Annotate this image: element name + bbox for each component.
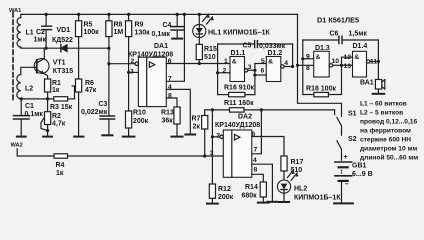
op-amp DA2 xyxy=(220,130,252,177)
capacitor C5 xyxy=(218,41,293,48)
svg-text:1мк: 1мк xyxy=(34,37,47,44)
ground GB1 xyxy=(334,202,353,204)
svg-text:R4: R4 xyxy=(56,162,65,169)
resistor R9 xyxy=(126,14,132,111)
svg-text:0,1мк: 0,1мк xyxy=(152,31,171,38)
svg-text:C4: C4 xyxy=(163,22,172,29)
svg-text:0,033мк: 0,033мк xyxy=(259,43,286,50)
svg-text:WA2: WA2 xyxy=(11,142,23,148)
svg-text:4: 4 xyxy=(284,60,288,67)
ground R14 xyxy=(258,202,269,204)
svg-text:R17: R17 xyxy=(291,159,304,166)
ground BA1 xyxy=(373,93,385,95)
svg-text:0,1мк: 0,1мк xyxy=(25,111,44,118)
wire top supply rail xyxy=(21,14,298,17)
battery GB1 xyxy=(335,162,352,202)
svg-text:130к: 130к xyxy=(135,30,151,37)
wire D1.3 pin8 input xyxy=(298,64,314,66)
wire node P down to S1 throw xyxy=(334,110,336,115)
resistor R17 xyxy=(281,156,287,180)
svg-text:VT1: VT1 xyxy=(53,60,66,67)
svg-text:&: & xyxy=(232,59,237,66)
svg-text:КТ315: КТ315 xyxy=(53,68,74,75)
svg-text:DA2: DA2 xyxy=(238,113,252,120)
svg-text:100к: 100к xyxy=(84,29,100,36)
resistor R5 xyxy=(76,14,82,79)
wire DA2 pin8 to R14 xyxy=(252,174,263,182)
svg-text:R2: R2 xyxy=(52,113,61,120)
inductor L1 xyxy=(17,18,21,48)
svg-text:3: 3 xyxy=(130,68,134,75)
svg-text:6: 6 xyxy=(168,58,172,65)
svg-text:3: 3 xyxy=(210,150,214,157)
svg-text:C5: C5 xyxy=(243,43,252,50)
resistor R13 xyxy=(174,107,180,136)
svg-text:КР140УД1208: КР140УД1208 xyxy=(215,122,260,129)
transistor VT1 xyxy=(34,59,49,74)
LED HL2 xyxy=(277,170,298,201)
svg-text:D1 К561ЛЕ5: D1 К561ЛЕ5 xyxy=(317,16,359,25)
svg-text:1М: 1М xyxy=(114,29,124,36)
svg-text:D1.4: D1.4 xyxy=(353,43,368,50)
ground R6 xyxy=(74,136,83,138)
svg-text:DA1: DA1 xyxy=(154,43,168,50)
svg-text:8: 8 xyxy=(168,92,172,99)
wire DA2 pin7 up to node P xyxy=(252,110,262,154)
svg-text:13: 13 xyxy=(344,63,352,70)
svg-text:R5: R5 xyxy=(84,22,93,29)
wire D1.4 pin12 input xyxy=(342,56,353,58)
wire VT1 collector to tank xyxy=(43,48,45,58)
resistor R6 (trimmer) xyxy=(76,79,82,136)
wire C6 right to D1.4 output node xyxy=(377,40,379,80)
resistor R1 xyxy=(45,79,51,99)
wire R6 wiper xyxy=(74,86,76,99)
wire D1.2 pin5 input xyxy=(255,63,266,65)
wire D1.3 pin9 input xyxy=(303,58,314,60)
ground C3 xyxy=(102,134,112,136)
svg-text:6: 6 xyxy=(252,131,256,138)
capacitor C2 xyxy=(42,14,52,48)
capacitor C6 xyxy=(303,36,379,43)
svg-text:8: 8 xyxy=(306,65,310,72)
svg-text:S2: S2 xyxy=(348,136,357,143)
logic gate D1.2 xyxy=(266,57,292,82)
svg-text:R11 160к: R11 160к xyxy=(224,100,254,107)
svg-text:6: 6 xyxy=(261,68,265,75)
resistor R11 xyxy=(230,108,335,112)
switch S2 xyxy=(337,132,342,160)
svg-text:C6: C6 xyxy=(330,30,339,37)
svg-text:R15: R15 xyxy=(204,46,217,53)
ground C4 xyxy=(172,38,182,40)
wire R12 column xyxy=(211,110,213,184)
wire DA1 pin6 output to D1.1 pin1 xyxy=(166,63,230,65)
inductor L2 xyxy=(17,75,21,99)
svg-text:ВА1: ВА1 xyxy=(360,80,374,87)
logic gate D1.1 xyxy=(230,57,255,82)
svg-text:S1: S1 xyxy=(348,111,357,118)
svg-text:4: 4 xyxy=(168,84,172,91)
svg-text:200к: 200к xyxy=(218,194,234,201)
svg-text:11: 11 xyxy=(370,59,377,66)
svg-text:КИПМО1Б–1К: КИПМО1Б–1К xyxy=(294,195,341,202)
svg-text:2: 2 xyxy=(216,133,220,140)
resistor R15 xyxy=(196,37,202,63)
op-amp DA1 xyxy=(135,57,166,106)
ground R10 xyxy=(123,136,135,138)
wire DA1 pin2 input xyxy=(109,63,135,65)
svg-text:R13: R13 xyxy=(161,110,174,117)
svg-text:R3 15к: R3 15к xyxy=(50,104,73,111)
svg-text:1к: 1к xyxy=(56,170,64,177)
svg-text:HL2: HL2 xyxy=(294,186,307,193)
svg-text:R1: R1 xyxy=(52,80,61,87)
wire DA2 pin6 output to R17 xyxy=(252,137,284,157)
svg-text:C2: C2 xyxy=(36,29,45,36)
svg-text:длиной 50...60 мм: длиной 50...60 мм xyxy=(360,154,418,162)
svg-text:7: 7 xyxy=(168,76,172,83)
wire D1.1 pin2 input xyxy=(218,72,230,74)
svg-text:R8: R8 xyxy=(114,22,123,29)
svg-text:2к: 2к xyxy=(193,123,201,130)
logic gate D1.4 xyxy=(353,51,379,77)
svg-text:5: 5 xyxy=(261,58,265,65)
ground HL2 xyxy=(279,201,289,203)
svg-text:L2: L2 xyxy=(25,86,33,93)
resistor R7 xyxy=(202,110,208,156)
ground R13 xyxy=(171,136,182,138)
resistor R8 xyxy=(106,14,112,115)
svg-text:L1: L1 xyxy=(26,30,34,37)
wire L1 bottom to oscillator node xyxy=(21,47,109,48)
svg-text:4: 4 xyxy=(253,157,257,164)
wire DA2 pin4 to ground xyxy=(252,164,273,201)
resistor R3 xyxy=(54,97,75,101)
ground R12 xyxy=(207,203,218,205)
svg-text:12: 12 xyxy=(344,54,352,61)
resistor R10 xyxy=(126,111,132,136)
svg-text:&: & xyxy=(354,54,359,61)
svg-text:КР140УД1208: КР140УД1208 xyxy=(128,52,173,59)
wire DA1 pin4 to ground xyxy=(166,89,190,133)
wire D1.2 pin6 input xyxy=(255,74,266,76)
capacitor C1 xyxy=(14,99,30,136)
svg-text:1,5мк: 1,5мк xyxy=(349,31,368,38)
resistor R16 xyxy=(218,64,255,97)
svg-text:680к: 680к xyxy=(242,192,258,199)
resistor R4 xyxy=(54,154,223,158)
svg-text:R12: R12 xyxy=(218,186,231,193)
wire VT1 emitter down xyxy=(44,74,47,79)
svg-text:L2 – 5 витков: L2 – 5 витков xyxy=(360,110,403,117)
svg-text:10: 10 xyxy=(332,58,340,65)
svg-text:510: 510 xyxy=(291,167,303,174)
antenna WA1 (ferrite rod, dashed) xyxy=(12,13,14,103)
svg-text:D1.3: D1.3 xyxy=(315,45,330,52)
svg-text:WA1: WA1 xyxy=(9,8,21,14)
svg-text:D1.2: D1.2 xyxy=(268,50,283,57)
ground DA2 pin4 xyxy=(267,201,277,203)
svg-text:+: + xyxy=(344,154,348,161)
wire D1.4 pin13 input xyxy=(342,64,353,66)
svg-text:36к: 36к xyxy=(162,117,174,124)
svg-text:C3: C3 xyxy=(99,101,108,108)
logic gate D1.3 xyxy=(314,51,342,77)
svg-text:8: 8 xyxy=(254,167,258,174)
svg-text:&: & xyxy=(268,59,273,66)
wire emitter node row xyxy=(21,98,54,100)
diode VD1 xyxy=(61,45,67,52)
switch S1 xyxy=(337,117,342,132)
wire DA2 pin2 input xyxy=(212,136,220,138)
ground R2 xyxy=(43,136,52,138)
svg-text:–: – xyxy=(345,181,349,188)
capacitor C3 xyxy=(100,116,115,134)
wire DA1 pin3 input xyxy=(129,71,139,73)
svg-text:диаметром 10 мм: диаметром 10 мм xyxy=(360,146,417,153)
LED HL1 xyxy=(193,14,214,37)
svg-text:&: & xyxy=(316,54,321,61)
svg-text:L1 – 60 витков: L1 – 60 витков xyxy=(360,101,407,108)
svg-text:КД522: КД522 xyxy=(52,37,73,44)
wire L2 bottom / C1 node xyxy=(20,98,22,100)
svg-text:3: 3 xyxy=(248,64,252,71)
svg-text:9: 9 xyxy=(306,53,310,60)
svg-text:510: 510 xyxy=(204,54,216,61)
svg-text:7: 7 xyxy=(254,147,258,154)
svg-text:R16 910к: R16 910к xyxy=(224,85,254,92)
svg-text:HL1 КИПМО1Б–1К: HL1 КИПМО1Б–1К xyxy=(208,29,270,36)
svg-text:6...9 В: 6...9 В xyxy=(352,171,373,178)
svg-text:4,7к: 4,7к xyxy=(52,121,66,128)
svg-text:R10: R10 xyxy=(133,110,146,117)
svg-text:GB1: GB1 xyxy=(352,162,367,169)
svg-text:R9: R9 xyxy=(135,22,144,29)
svg-text:R6: R6 xyxy=(85,80,94,87)
resistor R2 (variable) xyxy=(41,99,51,136)
resistor R12 xyxy=(209,184,215,203)
svg-text:на ферритовом: на ферритовом xyxy=(360,128,411,135)
speaker BA1 xyxy=(375,80,384,93)
svg-text:2: 2 xyxy=(223,67,227,74)
svg-text:D1.1: D1.1 xyxy=(231,50,246,57)
svg-text:47к: 47к xyxy=(85,87,97,94)
wire R7/R11/R12 node xyxy=(205,109,230,111)
wire C6 left node / D1.3 pin9 xyxy=(302,40,304,95)
wire bottom rail WA2/R4 to DA2 pin3 xyxy=(17,149,54,156)
svg-text:C1: C1 xyxy=(25,103,34,110)
capacitor C4 xyxy=(171,14,184,37)
svg-text:1к: 1к xyxy=(52,87,60,94)
svg-text:200к: 200к xyxy=(133,118,149,125)
svg-text:стержне 600 НН: стержне 600 НН xyxy=(360,137,411,144)
svg-text:0,022мк: 0,022мк xyxy=(81,109,108,116)
ground DA1 pin4 xyxy=(185,134,195,136)
resistor R14 xyxy=(260,182,266,202)
svg-text:2: 2 xyxy=(131,58,135,65)
wire C5 right to D1.2 pin4 output xyxy=(292,44,294,67)
svg-text:VD1: VD1 xyxy=(57,27,71,34)
ground C1 xyxy=(17,136,26,138)
wire C5/R16 left node xyxy=(217,44,219,95)
svg-text:R18 100к: R18 100к xyxy=(306,86,336,93)
svg-text:провод 0,12...0,16: провод 0,12...0,16 xyxy=(360,119,417,126)
wire DA1 pin8 to R13 xyxy=(166,98,177,107)
wire rail corner down to D1.3 pin8 and S1 xyxy=(298,14,342,116)
wire DA1 pin7 to rail xyxy=(166,14,184,81)
svg-text:R14: R14 xyxy=(245,184,258,191)
svg-text:1: 1 xyxy=(224,58,228,65)
svg-text:R7: R7 xyxy=(192,116,201,123)
wire VT1 base to L2 xyxy=(21,67,37,74)
resistor R18 xyxy=(303,57,342,97)
